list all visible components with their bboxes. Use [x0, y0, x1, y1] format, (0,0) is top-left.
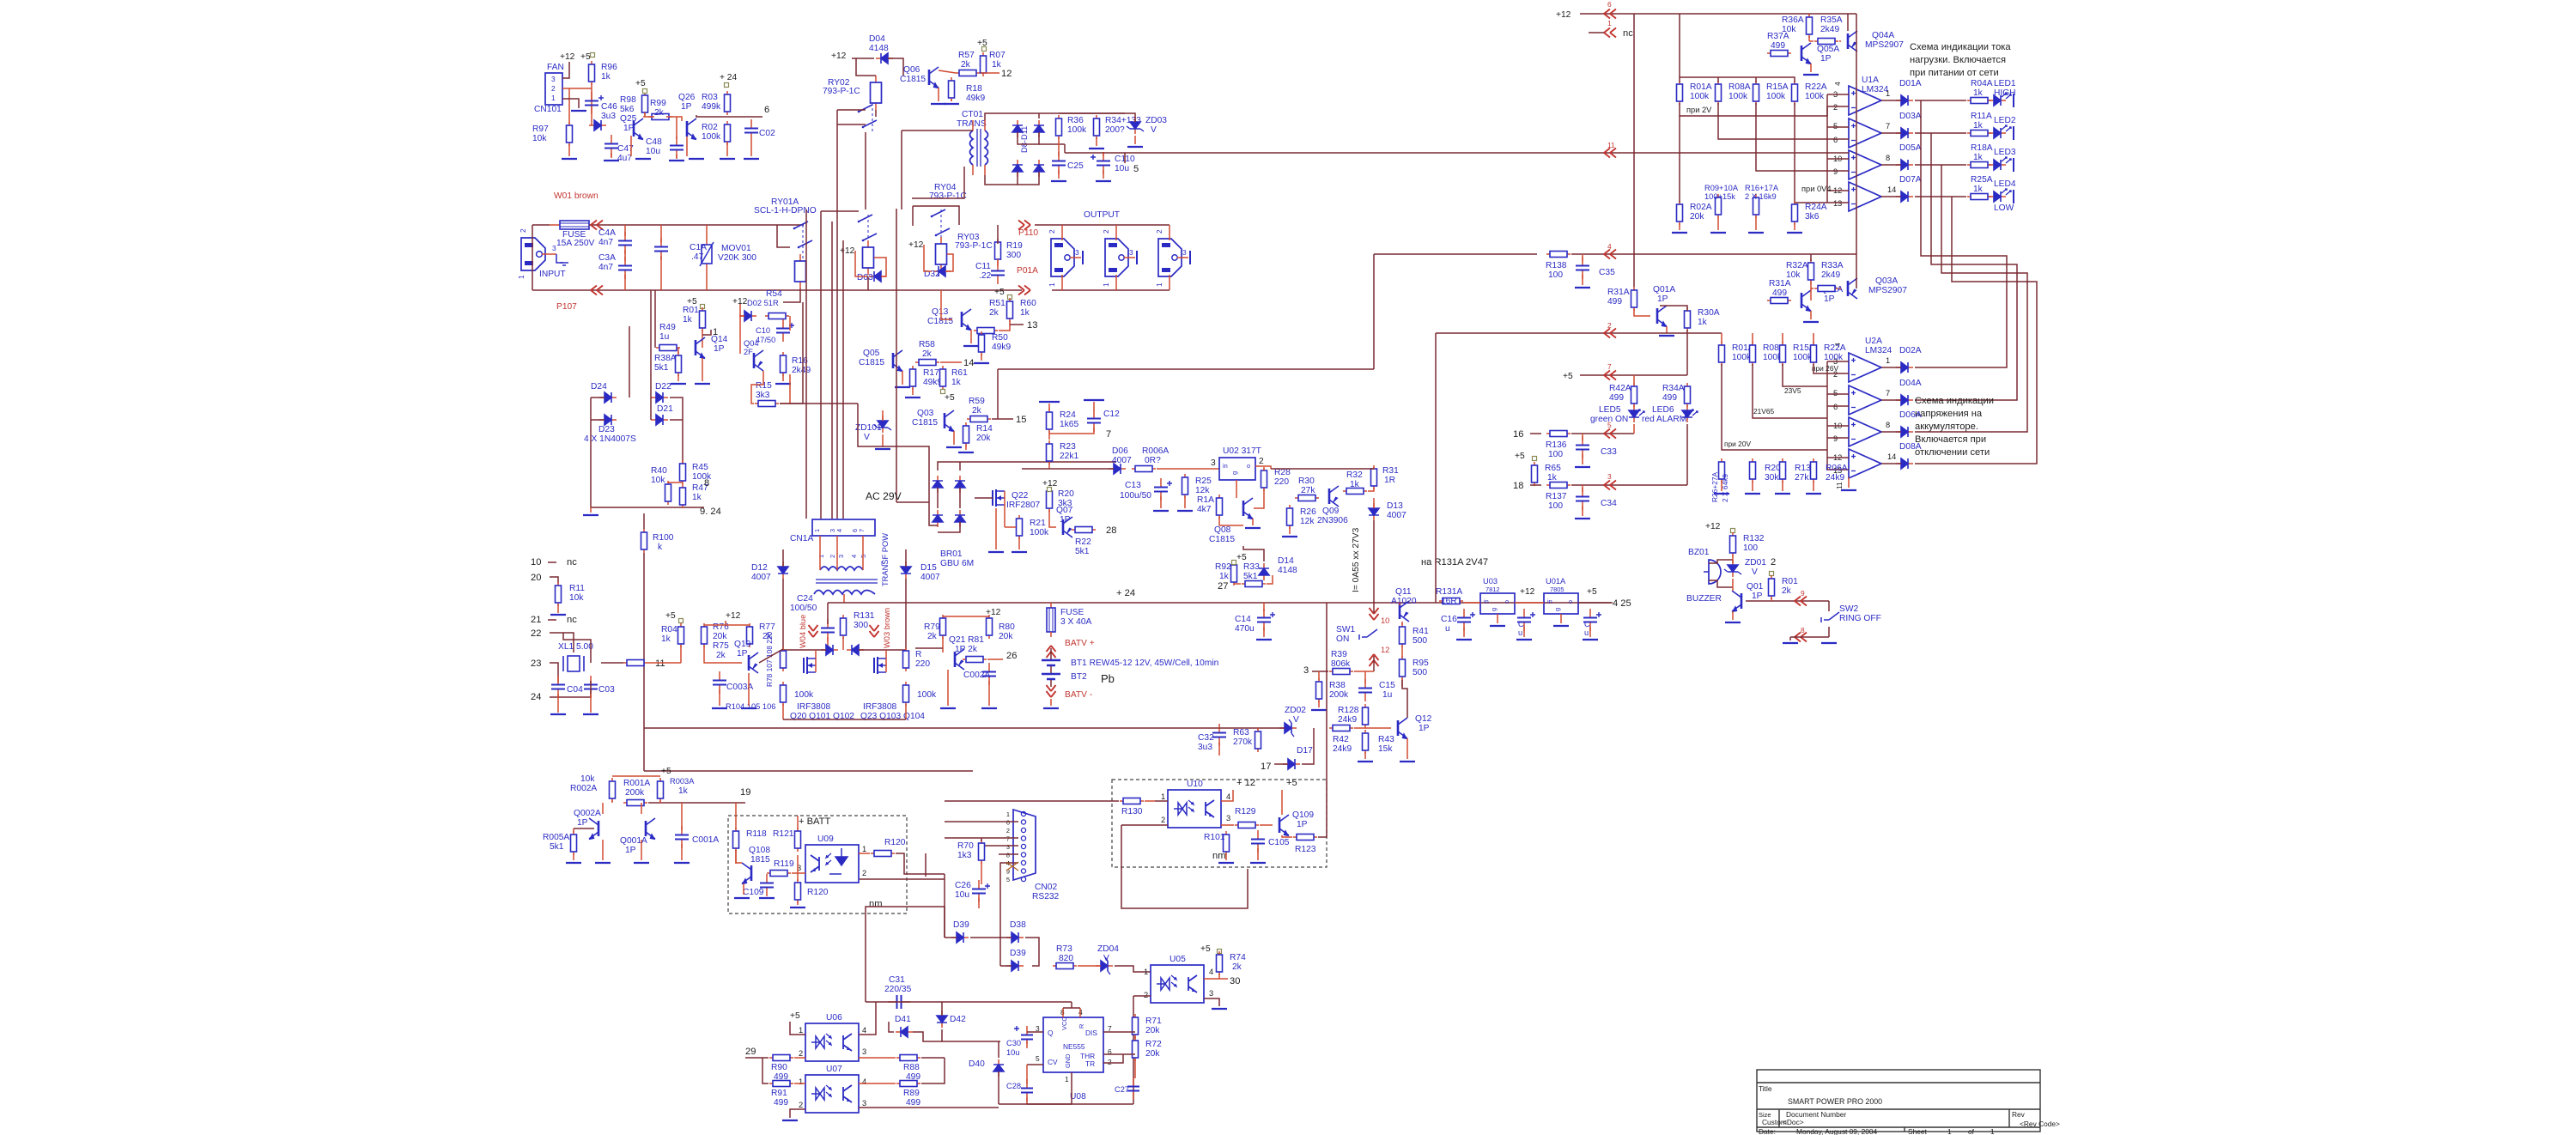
- resistor R89 499: [896, 1083, 920, 1084]
- transistor Q03A MPS2907: [1847, 281, 1850, 296]
- svg-text:R006A: R006A: [1142, 446, 1169, 456]
- resistor R33 5k1: [1242, 583, 1266, 585]
- resistor R1A 4k7: [1218, 495, 1220, 519]
- capacitor C1A .47: [660, 238, 662, 247]
- svg-text:R31: R31: [1382, 466, 1399, 476]
- svg-text:+12: +12: [1556, 10, 1571, 20]
- svg-text:100/50: 100/50: [790, 604, 817, 613]
- resistor R21 100k: [1018, 515, 1020, 539]
- resistor R136 100: [1546, 433, 1571, 434]
- svg-text:C4A: C4A: [598, 228, 616, 238]
- svg-text:7: 7: [1607, 362, 1612, 371]
- led LED1 HIGH: [1989, 100, 1994, 101]
- svg-text:3: 3: [1182, 248, 1187, 257]
- svg-text:R50: R50: [992, 333, 1008, 343]
- mosfet Q22 IRF2807: [993, 489, 996, 507]
- capacitor C14 470u: [1263, 609, 1265, 618]
- svg-text:<Doc>: <Doc>: [1783, 1118, 1804, 1126]
- resistor R24 1k65: [1048, 409, 1050, 433]
- wire opamp2 input box: [1827, 361, 1849, 362]
- capacitor C47 4u7: [611, 135, 612, 144]
- resistor R42A 499: [1633, 383, 1635, 407]
- svg-text:P107: P107: [556, 302, 577, 312]
- svg-text:11: 11: [1835, 482, 1844, 489]
- svg-text:TRANS: TRANS: [957, 119, 987, 129]
- svg-text:R09+10A: R09+10A: [1704, 184, 1739, 192]
- svg-text:16: 16: [1513, 429, 1523, 440]
- resistor R101: [1225, 831, 1227, 855]
- svg-text:1: 1: [1947, 1127, 1952, 1135]
- svg-text:10: 10: [531, 557, 541, 567]
- svg-text:23: 23: [531, 659, 541, 669]
- svg-text:1k: 1k: [1547, 473, 1558, 483]
- svg-text:1k: 1k: [1350, 480, 1360, 489]
- regulator U03 7812: [1480, 593, 1515, 614]
- svg-text:1: 1: [1065, 1075, 1069, 1083]
- wire node2 row: [1436, 332, 1722, 334]
- svg-text:24k9: 24k9: [1338, 715, 1357, 725]
- svg-text:4007: 4007: [1112, 456, 1132, 465]
- svg-text:R76: R76: [713, 622, 729, 632]
- transistor Q08 C1815: [1242, 501, 1245, 516]
- varistor MOV01 V20K 300: [706, 225, 708, 245]
- svg-text:D8-D11: D8-D11: [1020, 126, 1029, 153]
- resistor R88 499: [896, 1057, 920, 1059]
- svg-text:INPUT: INPUT: [539, 270, 566, 279]
- svg-text:W04 blue: W04 blue: [799, 615, 807, 648]
- svg-text:3: 3: [837, 555, 845, 558]
- svg-text:U01A: U01A: [1546, 577, 1566, 586]
- svg-text:4k7: 4k7: [1197, 505, 1212, 514]
- svg-text:1: 1: [1886, 356, 1890, 365]
- capacitor C001A: [681, 826, 683, 835]
- svg-text:R35A: R35A: [1820, 15, 1843, 25]
- svg-text:BT1 REW45-12 12V, 45W/Cell: BT1 REW45-12 12V, 45W/Cell, 10min: [1071, 659, 1219, 668]
- socket OUT1: [1051, 239, 1074, 276]
- svg-text:820: 820: [1059, 954, 1073, 963]
- led LED6 red ALARM: [1686, 405, 1688, 410]
- capacitor C32 3u3: [1218, 724, 1220, 733]
- capacitor C105: [1257, 830, 1259, 840]
- svg-text:9: 9: [1833, 434, 1838, 443]
- resistor R01 2k: [1771, 575, 1772, 599]
- svg-text:R16: R16: [792, 356, 808, 366]
- svg-text:+12: +12: [726, 611, 741, 621]
- svg-text:+ BATT: + BATT: [799, 816, 830, 827]
- svg-text:6: 6: [1833, 403, 1838, 411]
- resistor R16 2k49: [782, 352, 784, 376]
- resistor R45 100k: [682, 460, 683, 484]
- svg-text:Rev: Rev: [2012, 1110, 2026, 1119]
- resistor R23 22k1: [1048, 440, 1050, 464]
- svg-text:220: 220: [915, 659, 930, 669]
- svg-text:12k: 12k: [1195, 486, 1210, 495]
- transistor Q13 C1815: [961, 312, 963, 327]
- svg-text:C11: C11: [975, 262, 991, 271]
- svg-text:7805: 7805: [1550, 586, 1564, 593]
- svg-text:1815: 1815: [750, 855, 770, 865]
- svg-text:nc: nc: [567, 615, 577, 625]
- svg-text:LED2: LED2: [1994, 116, 2016, 125]
- svg-text:8: 8: [1886, 154, 1890, 162]
- resistor R32 1k: [1343, 490, 1367, 492]
- transistor Q11 A1020: [1399, 604, 1401, 619]
- svg-text:5k1: 5k1: [1243, 572, 1258, 581]
- svg-text:ZD01: ZD01: [1745, 558, 1766, 567]
- svg-text:100k: 100k: [1805, 92, 1825, 101]
- svg-text:28: 28: [1106, 525, 1116, 536]
- svg-text:IRF3808: IRF3808: [863, 702, 897, 712]
- svg-text:20k: 20k: [999, 632, 1013, 641]
- svg-text:RS232: RS232: [1032, 892, 1060, 901]
- capacitor C10 47/50: [782, 319, 784, 329]
- resistor R54 51R: [765, 315, 789, 317]
- capacitor C24 100/50: [827, 619, 829, 628]
- svg-text:C1815: C1815: [900, 75, 926, 84]
- svg-text:R33A: R33A: [1821, 261, 1844, 270]
- svg-text:1k: 1k: [1219, 572, 1230, 581]
- svg-text:22k1: 22k1: [1060, 452, 1078, 461]
- wire ground rail: [591, 507, 704, 508]
- svg-text:V: V: [1293, 715, 1299, 725]
- node 8: [668, 482, 683, 483]
- resistor R59 2k: [967, 418, 991, 420]
- svg-text:3: 3: [551, 75, 556, 83]
- svg-text:C03: C03: [598, 685, 615, 695]
- svg-text:аккумуляторе.: аккумуляторе.: [1915, 422, 1978, 432]
- svg-text:R01A: R01A: [1690, 82, 1712, 92]
- svg-text:red ALARM: red ALARM: [1642, 415, 1686, 424]
- resistor R22 5k1: [1072, 529, 1096, 531]
- diode D40: [998, 1071, 999, 1077]
- svg-text:XL1 5.00: XL1 5.00: [558, 642, 593, 652]
- svg-text:1P: 1P: [1657, 294, 1668, 304]
- resistor R24A 3k6: [1794, 201, 1795, 225]
- svg-text:BUZZER: BUZZER: [1686, 594, 1722, 604]
- svg-text:W03 brown: W03 brown: [883, 608, 891, 648]
- svg-text:499: 499: [1771, 41, 1785, 51]
- resistor R58 2k: [915, 361, 939, 363]
- wire comparator rows: [1680, 103, 1827, 116]
- capacitor C4A 4n7: [624, 232, 626, 241]
- svg-text:C109: C109: [743, 888, 764, 897]
- svg-text:2k: 2k: [654, 108, 665, 118]
- svg-text:15k: 15k: [1378, 744, 1393, 754]
- svg-text:1P: 1P: [737, 649, 748, 659]
- svg-text:5: 5: [1006, 876, 1010, 883]
- svg-text:R51: R51: [989, 299, 1005, 308]
- svg-text:+5: +5: [790, 1011, 800, 1021]
- svg-text:Q07: Q07: [1056, 506, 1073, 515]
- svg-text:C32: C32: [1198, 733, 1214, 743]
- svg-text:Pb: Pb: [1101, 672, 1115, 685]
- svg-text:D39: D39: [1010, 949, 1026, 958]
- resistor R70 1k3: [981, 840, 982, 864]
- capacitor C25: [1058, 152, 1060, 161]
- svg-text:1k: 1k: [601, 72, 611, 82]
- resistor R002A 10k: [611, 778, 613, 802]
- resistor R130: [1120, 800, 1144, 802]
- resistor R25A 1k: [1967, 196, 1991, 197]
- resistor R91 499: [769, 1083, 793, 1084]
- svg-text:NE555: NE555: [1063, 1042, 1085, 1051]
- svg-text:R120: R120: [884, 838, 906, 847]
- svg-text:R42A: R42A: [1609, 384, 1631, 393]
- resistor R100 k: [643, 529, 645, 553]
- svg-text:100k: 100k: [1690, 92, 1710, 101]
- regulator U01A 7805: [1544, 593, 1578, 614]
- svg-text:4: 4: [862, 1026, 866, 1035]
- svg-text:7812: 7812: [1485, 586, 1500, 593]
- resistor R65 1k: [1534, 462, 1535, 486]
- svg-text:6: 6: [1833, 136, 1838, 144]
- svg-text:BATV +: BATV +: [1065, 639, 1095, 648]
- svg-text:4n7: 4n7: [598, 238, 613, 247]
- label P01A: [1018, 286, 1030, 295]
- capacitor C12: [1093, 410, 1095, 419]
- svg-text:+12: +12: [560, 52, 575, 62]
- svg-text:k: k: [658, 543, 663, 552]
- svg-text:7: 7: [1886, 122, 1890, 130]
- svg-text:2: 2: [799, 1101, 803, 1109]
- svg-text:R98: R98: [620, 95, 636, 105]
- transistor Q14 1P: [695, 340, 697, 355]
- svg-text:R01: R01: [1782, 577, 1798, 586]
- svg-text:24k9: 24k9: [1333, 744, 1352, 754]
- svg-text:R91: R91: [771, 1089, 787, 1098]
- svg-text:22: 22: [531, 628, 541, 639]
- svg-text:R34A: R34A: [1662, 384, 1685, 393]
- svg-text:1k: 1k: [1973, 185, 1984, 194]
- svg-text:R003A: R003A: [670, 777, 695, 786]
- svg-text:D23: D23: [598, 425, 615, 434]
- svg-text:R131: R131: [854, 611, 875, 621]
- svg-text:of: of: [1968, 1127, 1975, 1135]
- resistor R50 49k9: [981, 331, 982, 355]
- transistor Q02A 1P: [1801, 293, 1803, 308]
- svg-text:+12: +12: [840, 246, 855, 256]
- svg-text:R21: R21: [1030, 519, 1046, 528]
- svg-text:1P: 1P: [1297, 820, 1308, 829]
- svg-text:14: 14: [963, 358, 974, 368]
- optocoupler U07: [805, 1075, 859, 1113]
- svg-text:1R: 1R: [1384, 476, 1395, 485]
- svg-text:R45: R45: [692, 463, 708, 472]
- title block frame: [1757, 1070, 2040, 1132]
- diode D fan: [589, 124, 594, 126]
- resistor R81 2k: [963, 659, 987, 660]
- resistor R57 2k: [956, 72, 980, 74]
- svg-text:nc: nc: [567, 557, 577, 567]
- svg-text:+5: +5: [994, 288, 1005, 297]
- resistor R49 1u: [656, 347, 680, 349]
- svg-text:Q13: Q13: [932, 307, 949, 317]
- svg-text:49k9: 49k9: [992, 343, 1011, 352]
- svg-text:3: 3: [1303, 665, 1309, 676]
- svg-text:29: 29: [745, 1047, 756, 1057]
- resistor R43 15k: [1364, 730, 1366, 754]
- svg-text:2k: 2k: [716, 651, 726, 660]
- node 14: [940, 361, 962, 363]
- svg-text:R104 105 106: R104 105 106: [726, 702, 775, 711]
- diode D39 b: [1006, 965, 1012, 967]
- resistor R31A2 499: [1767, 300, 1791, 301]
- svg-text:3k3: 3k3: [756, 391, 770, 400]
- svg-text:D17: D17: [1297, 746, 1313, 756]
- svg-text:4148: 4148: [1278, 566, 1297, 575]
- wire opamp input box: [1827, 94, 1849, 95]
- svg-text:R001A: R001A: [623, 779, 650, 788]
- svg-text:ZD03: ZD03: [1145, 116, 1167, 125]
- resistor R92 1k: [1233, 561, 1235, 586]
- svg-text:C27: C27: [1115, 1085, 1129, 1094]
- svg-text:Q19: Q19: [734, 640, 751, 649]
- capacitor C109: [766, 874, 768, 883]
- svg-text:2: 2: [1108, 1058, 1112, 1066]
- svg-text:I= 0A55 xx 27V3: I= 0A55 xx 27V3: [1352, 527, 1361, 592]
- svg-text:2: 2: [1102, 229, 1110, 234]
- resistor R118: [735, 828, 737, 852]
- svg-text:R04: R04: [661, 625, 677, 634]
- svg-text:8: 8: [704, 478, 709, 489]
- svg-text:напряжения на: напряжения на: [1915, 409, 1983, 419]
- svg-text:5: 5: [1607, 421, 1612, 429]
- label BATV +: [1047, 646, 1056, 658]
- svg-text:R08A: R08A: [1728, 82, 1751, 92]
- svg-text:4u7: 4u7: [617, 154, 632, 163]
- svg-text:R17: R17: [923, 368, 939, 378]
- svg-text:Q108: Q108: [749, 846, 770, 855]
- svg-text:U08: U08: [1070, 1092, 1086, 1102]
- optocoupler U05: [1151, 965, 1204, 1003]
- svg-text:12: 12: [1001, 69, 1012, 79]
- svg-text:D39: D39: [953, 920, 969, 930]
- svg-text:R36A: R36A: [1782, 15, 1804, 25]
- svg-text:+5: +5: [635, 79, 646, 88]
- resistor R121: [797, 828, 799, 852]
- svg-text:V: V: [1752, 567, 1758, 577]
- svg-text:7: 7: [1106, 429, 1111, 440]
- svg-text:1u: 1u: [1382, 690, 1392, 700]
- svg-text:R60: R60: [1020, 299, 1036, 308]
- svg-text:1k: 1k: [992, 60, 1002, 70]
- svg-text:4: 4: [862, 1077, 866, 1086]
- resistor R90 499: [769, 1057, 793, 1059]
- svg-text:4 X 1N4007S: 4 X 1N4007S: [584, 434, 636, 444]
- svg-text:2: 2: [519, 228, 527, 233]
- svg-text:C15: C15: [1379, 681, 1395, 690]
- svg-text:nc: nc: [1623, 28, 1633, 39]
- svg-text:R31A: R31A: [1607, 288, 1630, 297]
- resistor R32A 10k: [1810, 259, 1812, 283]
- svg-text:1: 1: [517, 275, 526, 279]
- svg-text:при 2V: при 2V: [1686, 106, 1712, 114]
- svg-text:20k: 20k: [1145, 1049, 1160, 1059]
- svg-text:ZD02: ZD02: [1285, 706, 1306, 715]
- svg-text:R42: R42: [1333, 735, 1349, 744]
- svg-text:R137: R137: [1546, 492, 1567, 501]
- svg-text:R25: R25: [1195, 476, 1212, 486]
- svg-text:3 X 40A: 3 X 40A: [1060, 617, 1092, 627]
- diode D39 a: [951, 937, 957, 938]
- svg-text:0R?: 0R?: [1145, 456, 1161, 465]
- svg-text:Q25: Q25: [620, 114, 637, 124]
- diode D02: [739, 315, 744, 317]
- svg-text:R07: R07: [989, 51, 1005, 60]
- capacitor C27: [1133, 1077, 1134, 1087]
- svg-text:20k: 20k: [1690, 212, 1704, 222]
- svg-text:100: 100: [1548, 501, 1563, 511]
- svg-text:R63: R63: [1233, 728, 1249, 737]
- svg-text:14: 14: [1887, 185, 1896, 194]
- resistor R25 12k: [1184, 474, 1186, 498]
- svg-text:2: 2: [829, 555, 836, 558]
- svg-text:10k: 10k: [569, 593, 584, 603]
- svg-text:SCL-1-H-DPNO: SCL-1-H-DPNO: [754, 206, 817, 215]
- svg-text:4: 4: [1226, 792, 1230, 801]
- resistor R129: [1235, 824, 1259, 826]
- capacitor C30 10u: [1026, 1026, 1028, 1035]
- svg-text:2k: 2k: [762, 632, 773, 641]
- svg-text:R54: R54: [766, 289, 782, 299]
- resistor R02 100k: [726, 121, 728, 145]
- svg-text:ZD04: ZD04: [1097, 944, 1119, 954]
- svg-text:R11A: R11A: [1971, 112, 1992, 121]
- svg-text:BATV -: BATV -: [1065, 690, 1092, 700]
- svg-text:R37A: R37A: [1767, 32, 1789, 41]
- svg-text:+5: +5: [1286, 778, 1297, 788]
- svg-text:3: 3: [862, 1099, 866, 1108]
- svg-text:V20K 300: V20K 300: [718, 253, 756, 263]
- svg-text:21V65: 21V65: [1753, 407, 1775, 416]
- svg-text:4: 4: [850, 555, 858, 558]
- svg-text:1k65: 1k65: [1060, 420, 1078, 429]
- svg-text:1P: 1P: [714, 344, 725, 354]
- svg-text:R73: R73: [1056, 944, 1072, 954]
- svg-text:R1A: R1A: [1197, 495, 1214, 505]
- svg-text:D13: D13: [1387, 501, 1403, 511]
- svg-text:9. 24: 9. 24: [700, 507, 721, 517]
- resistor R03 499k: [726, 91, 728, 115]
- svg-text:при 20V: при 20V: [1724, 440, 1751, 448]
- svg-text:1k: 1k: [1973, 88, 1984, 98]
- svg-text:2k49: 2k49: [792, 366, 811, 375]
- svg-text:24: 24: [531, 692, 541, 702]
- resistor R47 1k: [682, 484, 683, 508]
- svg-text:R129: R129: [1235, 807, 1256, 816]
- svg-text:R22A: R22A: [1824, 343, 1846, 353]
- resistor R17 49k9: [912, 366, 914, 390]
- diode D05A: [1896, 164, 1901, 166]
- svg-text:806k: 806k: [1331, 659, 1351, 669]
- svg-text:D07A: D07A: [1899, 175, 1922, 185]
- capacitor C03: [590, 676, 592, 685]
- svg-text:2k: 2k: [922, 349, 933, 359]
- transistor Q109 1P: [1279, 817, 1281, 833]
- svg-text:10u: 10u: [955, 890, 969, 900]
- capacitor C u out: [1589, 609, 1591, 618]
- svg-text:.22: .22: [979, 271, 992, 281]
- svg-text:499: 499: [774, 1098, 788, 1108]
- wire +24 bus: [828, 602, 1613, 604]
- wire relay routing: [913, 206, 959, 225]
- svg-text:1k: 1k: [678, 786, 689, 796]
- svg-text:R19: R19: [1006, 241, 1023, 251]
- svg-text:+5: +5: [945, 393, 955, 403]
- resistor R08A 100k b: [1752, 342, 1753, 366]
- svg-text:C04: C04: [567, 685, 583, 695]
- resistor R38A 5k1: [677, 352, 679, 376]
